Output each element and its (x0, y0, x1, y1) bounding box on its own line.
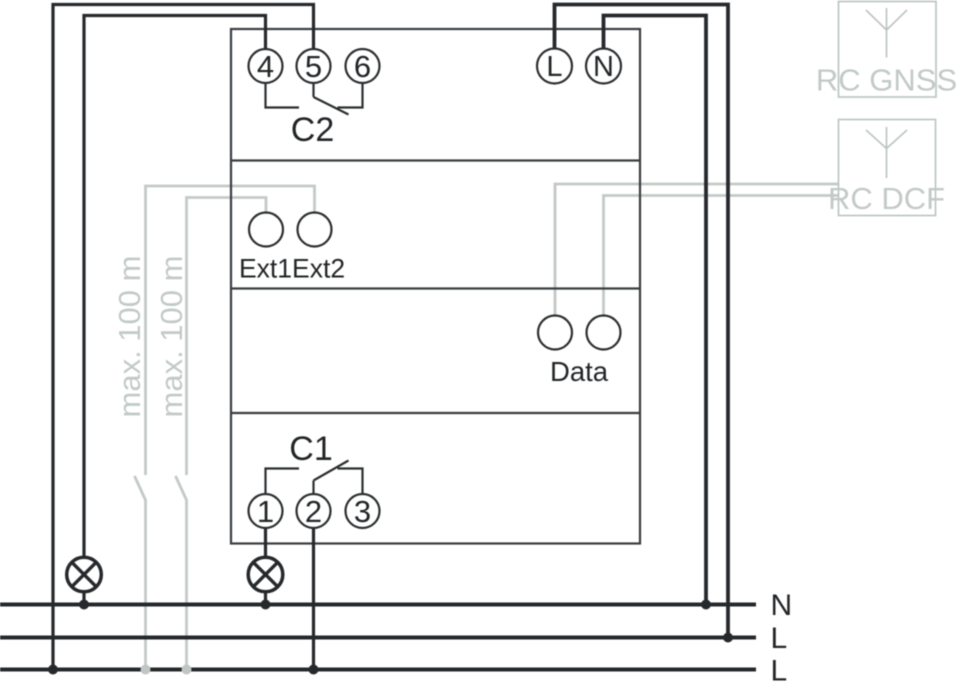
svg-text:L: L (771, 655, 788, 686)
terminal N (586, 49, 621, 84)
antenna box RC DCF (839, 120, 936, 216)
svg-text:4: 4 (257, 49, 274, 84)
section divider 2 (231, 287, 640, 289)
wire Data1 to RC DCF (gray) (555, 184, 838, 316)
terminal 2 (297, 494, 331, 529)
switch on Ext2 wire (135, 476, 146, 670)
wire terminal L to L rail (555, 5, 729, 638)
rail L1 (0, 636, 756, 640)
terminal L (537, 49, 572, 84)
svg-text:max. 100 m: max. 100 m (154, 256, 189, 418)
switch on Ext1 wire (176, 476, 187, 670)
svg-text:RC GNSS: RC GNSS (816, 62, 957, 97)
svg-text:N: N (593, 51, 614, 83)
wire Data2 to RC DCF (gray) (604, 196, 839, 317)
terminal 4 (249, 49, 283, 84)
svg-text:Ext1Ext2: Ext1Ext2 (239, 254, 345, 284)
junction L wire on rail L1 (723, 633, 733, 643)
junction lamp C1 on rail N (261, 600, 271, 610)
lamp load on C1 (248, 557, 283, 592)
terminal Ext1 (249, 213, 283, 247)
rail N (0, 603, 756, 607)
svg-text:5: 5 (305, 49, 322, 84)
terminal Data2 (587, 316, 621, 350)
terminal 5 (297, 49, 331, 84)
section divider 3 (231, 412, 640, 414)
lamp load on C2 (67, 557, 102, 592)
antenna box RC GNSS (839, 2, 937, 98)
switch contact C2 (266, 83, 363, 115)
wire lamp C2 to terminal 4 (84, 16, 266, 558)
junction lamp C2 on rail N (79, 600, 89, 610)
wire lamp C1 to N rail (264, 592, 267, 605)
junction terminal 2 on rail L2 (309, 665, 319, 675)
wire terminal 1 to lamp C1 (264, 528, 267, 558)
wire terminal N to N rail (604, 16, 707, 605)
junction Ext1 switch wire on rail L2 (gray) (182, 665, 192, 675)
svg-text:3: 3 (354, 494, 371, 529)
svg-text:6: 6 (354, 49, 371, 84)
wire Ext1 to external switch (gray) (187, 198, 267, 476)
svg-text:RC DCF: RC DCF (828, 181, 945, 216)
svg-text:1: 1 (257, 494, 274, 529)
rail L2 (0, 668, 756, 672)
section divider 1 (231, 159, 640, 161)
wire lamp C2 to N rail (82, 592, 85, 605)
antenna symbol DCF (866, 127, 907, 178)
terminal 1 (249, 494, 283, 529)
svg-text:L: L (771, 622, 788, 655)
junction left wire on rail L2 (48, 665, 58, 675)
svg-text:N: N (771, 589, 793, 622)
antenna symbol GNSS (866, 8, 907, 58)
device box (231, 29, 640, 544)
switch contact C1 (266, 461, 363, 495)
terminal Ext2 (298, 213, 332, 247)
wire terminal 2 to L rail (312, 528, 315, 670)
terminal 3 (346, 494, 380, 529)
svg-text:2: 2 (305, 494, 322, 529)
wire Ext2 to external switch (gray) (146, 186, 315, 475)
svg-text:C2: C2 (291, 111, 334, 149)
svg-text:Data: Data (550, 356, 609, 387)
terminal Data1 (538, 316, 572, 350)
svg-text:L: L (546, 51, 562, 83)
terminal 6 (346, 49, 380, 84)
wire L supply to terminal 5 (53, 5, 314, 670)
svg-text:C1: C1 (289, 430, 332, 468)
junction N wire on rail N (701, 600, 711, 610)
svg-text:max. 100 m: max. 100 m (112, 256, 147, 418)
junction Ext2 switch wire on rail L2 (gray) (141, 665, 151, 675)
